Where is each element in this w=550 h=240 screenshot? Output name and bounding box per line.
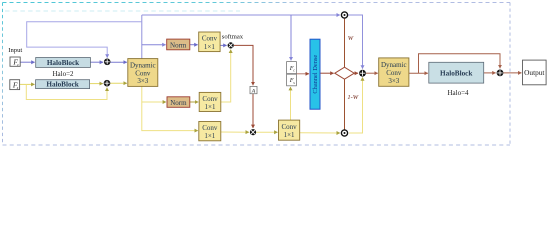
wire add2 to DynamicConv1 — [110, 82, 127, 84]
wire diamond to add3 — [353, 72, 358, 74]
wire omul2 to add3 — [349, 77, 362, 133]
wire HaloBlock1 to add1 — [90, 61, 103, 63]
svg-text:Input: Input — [8, 47, 22, 54]
svg-text:1×1: 1×1 — [205, 103, 216, 111]
wire diamond down to omul2 1-W — [344, 79, 346, 129]
wire loop back left — [27, 22, 142, 58]
block Conv4 — [279, 120, 300, 140]
xmul2 circle — [250, 129, 256, 135]
wire residual2 — [26, 84, 107, 99]
svg-text:Halo=4: Halo=4 — [447, 89, 469, 97]
outer dashed border bottom — [3, 144, 511, 146]
add4 circle — [497, 70, 504, 77]
svg-text:HaloBlock: HaloBlock — [47, 59, 79, 67]
svg-text:Conv: Conv — [202, 95, 218, 103]
svg-text:Dynamic: Dynamic — [381, 61, 407, 69]
block Conv2 — [199, 92, 221, 111]
svg-text:Conv: Conv — [282, 123, 298, 131]
wire add1 to DynamicConv1 — [110, 61, 126, 63]
wire xmul2 to Conv4 — [256, 131, 277, 133]
wire F_s to HaloBlock2 — [20, 83, 35, 85]
svg-text:3×3: 3×3 — [388, 77, 399, 85]
box F_c input — [10, 57, 20, 66]
wire branch to Norm1 — [142, 44, 166, 46]
svg-text:Conv: Conv — [202, 124, 218, 132]
svg-text:HaloBlock: HaloBlock — [440, 69, 472, 77]
svg-text:3×3: 3×3 — [137, 77, 148, 85]
wire Conv4 up to Fs2 — [290, 87, 292, 120]
svg-text:W: W — [348, 35, 354, 42]
box Fs2 — [287, 74, 297, 86]
svg-text:A: A — [251, 88, 256, 94]
wire Norm1 to Conv1 — [190, 44, 198, 46]
add3 circle — [359, 70, 366, 77]
svg-text:1×1: 1×1 — [204, 43, 215, 51]
wire A box to xmul2 — [252, 94, 254, 128]
block HaloBlock3 — [429, 62, 484, 83]
svg-text:Halo=2: Halo=2 — [52, 70, 74, 78]
outer dashed border right — [509, 3, 511, 146]
wire HaloBlock3 to add4 — [484, 72, 496, 74]
wire DynamicConv2 to HaloBlock3 — [409, 72, 428, 74]
block DynamicConv1 — [128, 59, 158, 87]
wire DynamicConv1 top vertical — [141, 15, 143, 59]
block Conv3 — [199, 122, 221, 141]
wire Conv2 up to xmul1 — [221, 50, 231, 102]
wire omul1 to add3 — [348, 15, 362, 69]
svg-text:HaloBlock: HaloBlock — [46, 81, 78, 89]
svg-text:1-W: 1-W — [347, 94, 358, 101]
xmul1 circle softmax — [228, 42, 234, 48]
wire skip over HaloBlock3 — [419, 54, 501, 73]
svg-text:Dynamic: Dynamic — [130, 62, 156, 70]
outer dashed border top — [3, 2, 511, 4]
wire DynamicConv1 bottom vertical to Conv3 — [142, 86, 198, 130]
wire add4 to Output — [504, 72, 522, 74]
svg-text:Conv: Conv — [202, 35, 218, 43]
outer dashed border left — [2, 3, 4, 146]
block ChannelDense — [310, 39, 320, 109]
svg-text:softmax: softmax — [222, 34, 244, 41]
wire HaloBlock2 to add2 — [90, 83, 103, 85]
add2 circle — [104, 80, 111, 87]
box A attention — [250, 86, 257, 93]
svg-text:1×1: 1×1 — [284, 131, 295, 139]
box Fc2 — [287, 62, 297, 74]
wire Conv1 to xmul1 — [220, 44, 227, 46]
box F_s input — [10, 80, 20, 90]
svg-text:Conv: Conv — [386, 69, 402, 77]
omul2 circle — [341, 130, 347, 136]
svg-text:Output: Output — [524, 68, 544, 77]
svg-text:c: c — [17, 62, 19, 67]
box Output — [523, 60, 547, 85]
wire Conv3 to xmul2 — [221, 131, 249, 133]
block Norm2 — [167, 97, 190, 108]
block Norm1 — [167, 39, 190, 50]
wire Conv4 to omul2 — [300, 132, 340, 134]
omul1 circle — [341, 12, 347, 18]
inner faint dashed line — [5, 10, 240, 12]
wire add3 to DynamicConv2 — [366, 72, 378, 74]
block HaloBlock1 — [36, 58, 91, 68]
svg-text:Conv: Conv — [135, 69, 151, 77]
svg-text:1×1: 1×1 — [204, 132, 215, 140]
svg-text:Channel Dense: Channel Dense — [312, 55, 319, 94]
block DynamicConv2 — [379, 58, 409, 86]
wire diamond up to omul1 W — [344, 19, 346, 68]
wire ChannelDense to diamond — [320, 72, 334, 74]
block Conv1 — [199, 32, 220, 52]
wire top line to omul1 — [142, 14, 340, 16]
wire F_c to HaloBlock1 — [20, 61, 34, 63]
wire Norm2 to Conv2 — [190, 101, 198, 103]
wire branch to Norm2 — [142, 101, 166, 103]
block HaloBlock2 — [36, 80, 90, 89]
svg-text:Norm: Norm — [170, 99, 187, 107]
wire Fboxes to ChannelDense — [296, 73, 309, 75]
diamond gate — [335, 67, 354, 79]
wire xmul1 to A box — [234, 45, 253, 85]
svg-text:Norm: Norm — [170, 41, 187, 49]
add1 circle — [104, 59, 111, 66]
wire topline down to Fc2 — [290, 15, 292, 60]
